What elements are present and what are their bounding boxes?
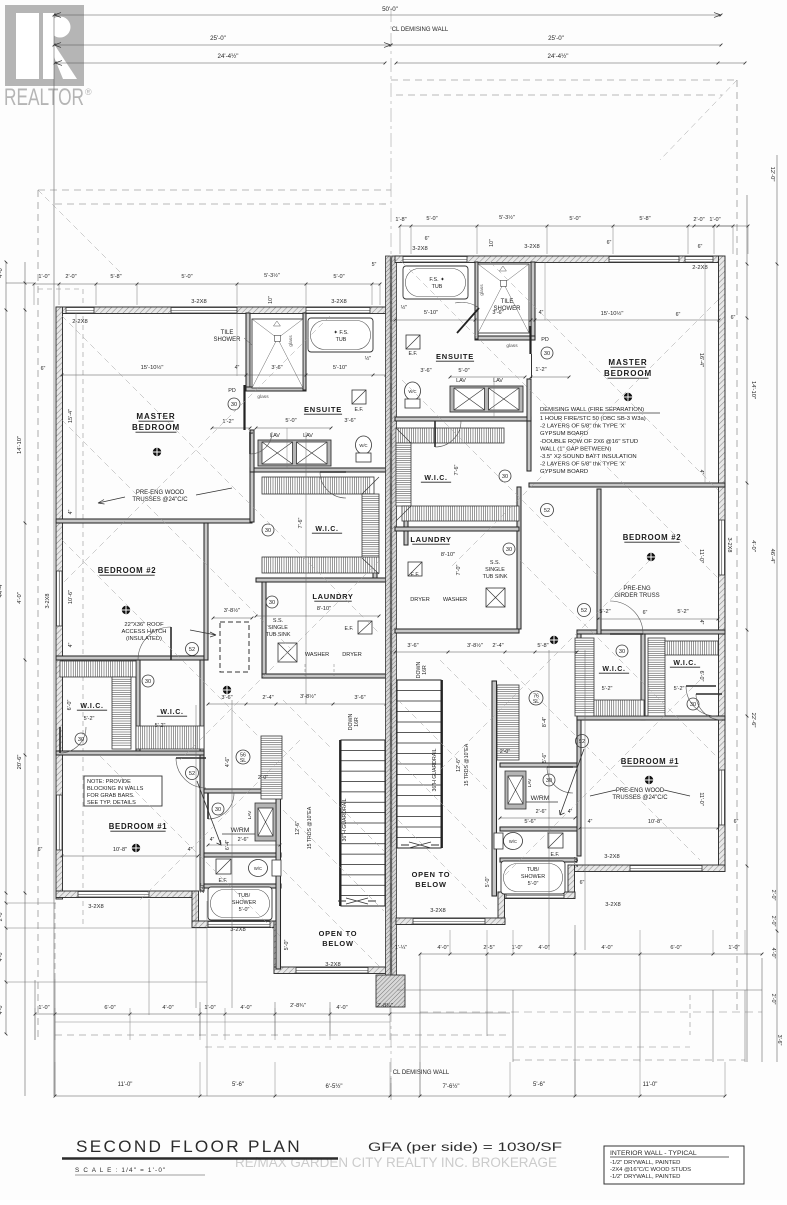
laundry sink B bbox=[486, 588, 505, 607]
svg-text:TILE: TILE bbox=[221, 330, 234, 336]
svg-text:LAV: LAV bbox=[303, 433, 313, 439]
svg-text:OPEN TO: OPEN TO bbox=[319, 929, 358, 938]
door bed1 B bbox=[686, 686, 716, 716]
dim 25'-0" left bbox=[54, 44, 391, 46]
tag 30 wic B bbox=[499, 470, 511, 482]
watermark REALTOR logo bbox=[5, 5, 84, 86]
svg-text:BELOW: BELOW bbox=[415, 880, 447, 889]
svg-text:3'-6": 3'-6" bbox=[420, 368, 431, 374]
linen closet A bbox=[261, 736, 282, 799]
svg-text:3'-8½": 3'-8½" bbox=[467, 642, 483, 649]
staircase B bbox=[397, 680, 441, 848]
wall master|shower A bbox=[246, 313, 250, 390]
svg-text:6": 6" bbox=[734, 819, 739, 825]
bed1 dim B bbox=[580, 827, 718, 829]
light hall A bbox=[223, 686, 231, 694]
wall bed2|hall A bbox=[204, 523, 208, 660]
svg-text:1'-2": 1'-2" bbox=[535, 367, 546, 373]
door wrm B bbox=[547, 767, 573, 793]
window A top 1 bbox=[66, 308, 94, 314]
svg-text:3'-8½": 3'-8½" bbox=[300, 693, 316, 700]
dim string A bottom bbox=[35, 1013, 390, 1015]
svg-text:10": 10" bbox=[489, 239, 495, 247]
svg-text:1'-8": 1'-8" bbox=[395, 217, 406, 223]
svg-text:PD: PD bbox=[541, 337, 549, 343]
svg-text:6'-0": 6'-0" bbox=[104, 1005, 115, 1011]
exhaust fan A laundry bbox=[358, 621, 372, 634]
jog wall A2 bbox=[274, 921, 281, 973]
svg-text:4": 4" bbox=[698, 470, 704, 475]
exterior wall stair bay B bbox=[396, 918, 505, 925]
left outer dim vertical bbox=[53, 15, 55, 1096]
hall dim string A bbox=[208, 703, 386, 705]
porch dashed box right bbox=[513, 1059, 745, 1061]
wall ensuite|wic B bbox=[395, 417, 531, 421]
svg-text:4'-6": 4'-6" bbox=[225, 757, 231, 767]
exhaust fan A bbox=[352, 390, 366, 404]
tag 30 wic A bbox=[262, 524, 274, 536]
svg-text:1'-0": 1'-0" bbox=[204, 1005, 215, 1011]
svg-text:CL DEMISING WALL: CL DEMISING WALL bbox=[392, 27, 449, 33]
bottom dim string bbox=[55, 1095, 725, 1097]
svg-text:3'-6": 3'-6" bbox=[407, 643, 418, 649]
tag 30 wrm B bbox=[543, 774, 555, 786]
window B stair bay bbox=[413, 919, 485, 925]
svg-text:30: 30 bbox=[231, 402, 237, 408]
svg-text:WASHER: WASHER bbox=[305, 652, 329, 658]
toilet A ensuite bbox=[356, 436, 372, 454]
door ensuite A bbox=[250, 432, 272, 454]
door wic A bbox=[320, 472, 346, 498]
laundry sink A bbox=[278, 643, 297, 662]
svg-text:BELOW: BELOW bbox=[322, 939, 354, 948]
tag 30 wrm A bbox=[212, 803, 224, 815]
window B top 1 bbox=[403, 257, 467, 263]
svg-text:1'-0": 1'-0" bbox=[728, 945, 739, 951]
svg-text:5'-0": 5'-0" bbox=[426, 216, 437, 222]
svg-text:2'-0": 2'-0" bbox=[770, 916, 776, 927]
svg-text:W/C: W/C bbox=[408, 389, 416, 394]
svg-text:2-2X8: 2-2X8 bbox=[72, 319, 87, 325]
svg-text:6'-0": 6'-0" bbox=[698, 671, 704, 682]
svg-text:15 TRDS @10"EA: 15 TRDS @10"EA bbox=[307, 806, 313, 849]
svg-text:16R: 16R bbox=[422, 665, 428, 675]
svg-text:-2 LAYERS OF 5/8" thk TYPE 'X': -2 LAYERS OF 5/8" thk TYPE 'X' bbox=[540, 462, 626, 468]
demising wall stub bottom bbox=[376, 975, 405, 1007]
toilet B wrm bbox=[494, 833, 503, 849]
freestanding tub A bbox=[308, 318, 373, 352]
svg-text:1'-¼": 1'-¼" bbox=[395, 945, 407, 951]
dim 24'-4 1/2 right bbox=[396, 62, 718, 64]
svg-text:5'-10": 5'-10" bbox=[333, 365, 347, 371]
svg-text:4'-0": 4'-0" bbox=[336, 1005, 347, 1011]
stair bay diagonals B bbox=[398, 700, 490, 792]
door bed1 A bbox=[176, 758, 206, 788]
svg-text:LAUNDRY: LAUNDRY bbox=[410, 535, 451, 544]
in-room dim verticals B bbox=[704, 262, 706, 483]
svg-text:2'-5": 2'-5" bbox=[483, 945, 494, 951]
svg-text:3-2X8: 3-2X8 bbox=[88, 904, 103, 910]
tag 52 B bbox=[578, 604, 591, 617]
svg-text:5": 5" bbox=[372, 262, 377, 268]
svg-text:WASHER: WASHER bbox=[443, 597, 467, 603]
tag 52 A bbox=[186, 643, 199, 656]
window B bed1 bbox=[630, 866, 702, 872]
left dim line x25 bbox=[24, 262, 26, 1096]
wall stair bay left A bbox=[276, 740, 281, 969]
porch verticals left extra bbox=[148, 899, 150, 1015]
svg-text:5'-8": 5'-8" bbox=[537, 643, 548, 649]
tub/shower B bbox=[501, 861, 565, 894]
svg-text:-3.5" X2 SOUND BATT INSULATION: -3.5" X2 SOUND BATT INSULATION bbox=[540, 454, 637, 460]
svg-text:LAUNDRY: LAUNDRY bbox=[312, 592, 353, 601]
jog wall B2 bbox=[498, 892, 505, 922]
exterior wall tub bay A bbox=[192, 921, 280, 928]
svg-text:3'-6": 3'-6" bbox=[354, 695, 365, 701]
unit A top wall dim string bbox=[34, 283, 380, 285]
svg-text:30: 30 bbox=[619, 649, 625, 655]
wall wic2|hall B bbox=[577, 634, 581, 856]
svg-text:ENSUITE: ENSUITE bbox=[436, 352, 474, 361]
svg-text:11'-0": 11'-0" bbox=[118, 1082, 133, 1088]
wall shower|tub B bbox=[475, 262, 478, 339]
right dim line x777 bbox=[776, 155, 778, 1062]
wic corner diagonals B bbox=[396, 428, 411, 443]
svg-text:6'-0": 6'-0" bbox=[670, 945, 681, 951]
svg-text:2'-4": 2'-4" bbox=[492, 643, 503, 649]
door wic2 B bbox=[696, 694, 722, 720]
svg-text:30: 30 bbox=[265, 528, 271, 534]
svg-text:BEDROOM #2: BEDROOM #2 bbox=[98, 566, 157, 575]
wrm dim B bbox=[500, 817, 575, 819]
svg-text:TUB: TUB bbox=[432, 284, 443, 290]
svg-text:7'-6½": 7'-6½" bbox=[443, 1083, 460, 1090]
svg-text:30: 30 bbox=[502, 474, 508, 480]
svg-text:DRYER: DRYER bbox=[342, 652, 361, 658]
svg-text:11'-0": 11'-0" bbox=[643, 1082, 658, 1088]
svg-text:7'-6": 7'-6" bbox=[298, 518, 304, 529]
wall below shower A bbox=[246, 387, 306, 391]
porch verticals bbox=[54, 979, 56, 1096]
svg-text:2-2X8: 2-2X8 bbox=[692, 265, 707, 271]
wrm dim A bbox=[208, 844, 280, 846]
wall bed2 bottom A bbox=[56, 656, 204, 660]
tile shower A bbox=[252, 319, 303, 388]
stair cross mark B bbox=[401, 842, 439, 848]
svg-text:E.F.: E.F. bbox=[411, 572, 420, 578]
svg-text:TRUSSES @24"C/C: TRUSSES @24"C/C bbox=[132, 497, 188, 503]
svg-text:8'-10": 8'-10" bbox=[441, 552, 455, 558]
svg-text:4'-0": 4'-0" bbox=[17, 592, 23, 604]
svg-text:3-2X8: 3-2X8 bbox=[191, 299, 206, 305]
window A bed1 bottom bbox=[78, 892, 149, 898]
first floor dashed outline A bbox=[82, 289, 84, 928]
svg-text:SL: SL bbox=[533, 699, 539, 705]
svg-text:W.I.C.: W.I.C. bbox=[160, 709, 183, 716]
svg-text:INTERIOR WALL - TYPICAL: INTERIOR WALL - TYPICAL bbox=[610, 1150, 697, 1157]
svg-text:½": ½" bbox=[401, 304, 407, 311]
exhaust fan B laundry bbox=[408, 562, 422, 576]
tag PD30 A bbox=[228, 398, 240, 410]
svg-text:1'-2": 1'-2" bbox=[222, 419, 233, 425]
wall wrm|wc A bbox=[204, 853, 281, 857]
window B tub bay bbox=[506, 893, 564, 899]
dim 50'-0" overall bbox=[54, 14, 721, 16]
svg-text:3-2X8: 3-2X8 bbox=[45, 594, 51, 609]
wall shower|tub A bbox=[303, 313, 306, 390]
svg-text:5'-6": 5'-6" bbox=[524, 819, 535, 825]
svg-text:TUB/: TUB/ bbox=[527, 867, 540, 873]
svg-text:22'-6": 22'-6" bbox=[750, 713, 756, 728]
svg-text:BEDROOM #1: BEDROOM #1 bbox=[109, 822, 168, 831]
svg-text:50'-0": 50'-0" bbox=[382, 6, 398, 13]
exhaust fan B wrm bbox=[548, 833, 563, 848]
svg-text:5'-6": 5'-6" bbox=[542, 753, 548, 763]
svg-text:PRE-ENG WOOD: PRE-ENG WOOD bbox=[136, 490, 185, 496]
svg-text:12'-0": 12'-0" bbox=[769, 167, 775, 182]
svg-text:2'-0": 2'-0" bbox=[0, 911, 4, 922]
tag 30 wic1 B bbox=[616, 645, 628, 657]
svg-text:10": 10" bbox=[268, 296, 274, 304]
svg-text:4'-0": 4'-0" bbox=[601, 945, 612, 951]
stair rail A bbox=[339, 740, 341, 906]
stair rail B bbox=[441, 680, 443, 848]
door bed2 B bbox=[610, 601, 643, 634]
truss lines B bbox=[450, 300, 718, 568]
svg-text:3'-6": 3'-6" bbox=[776, 1035, 782, 1046]
svg-text:5'-2": 5'-2" bbox=[677, 609, 688, 615]
svg-text:2'-4": 2'-4" bbox=[262, 695, 273, 701]
extension lines bottom B bbox=[449, 930, 451, 954]
svg-text:4'-0": 4'-0" bbox=[0, 266, 4, 278]
svg-text:SHOWER: SHOWER bbox=[232, 900, 256, 906]
svg-text:1'-0": 1'-0" bbox=[38, 1005, 49, 1011]
svg-text:-2X4 @16"C/C WOOD STUDS: -2X4 @16"C/C WOOD STUDS bbox=[610, 1167, 691, 1173]
svg-text:46'-4": 46'-4" bbox=[769, 549, 775, 564]
svg-text:14'-10": 14'-10" bbox=[17, 436, 23, 454]
svg-text:5'-10": 5'-10" bbox=[424, 310, 438, 316]
window A tub bay bbox=[208, 922, 270, 928]
roof hip dashed diagonals bbox=[38, 190, 120, 272]
svg-text:TUB/: TUB/ bbox=[238, 893, 251, 899]
wall laundry right B bbox=[517, 487, 521, 629]
svg-text:W.I.C.: W.I.C. bbox=[602, 666, 625, 673]
svg-text:PRE-ENG: PRE-ENG bbox=[623, 586, 651, 592]
svg-text:10'-8": 10'-8" bbox=[113, 847, 127, 853]
svg-text:MASTER: MASTER bbox=[136, 412, 175, 421]
ensuite door leaf B bbox=[457, 308, 479, 333]
closet shelf A master wic top bbox=[262, 477, 374, 494]
arrow from tag 52 B bbox=[560, 749, 585, 815]
wall wic1|wic2 A bbox=[136, 660, 140, 755]
laundry dim vertical A bbox=[305, 432, 307, 704]
svg-text:5'-0": 5'-0" bbox=[569, 216, 580, 222]
porch dashed left bbox=[55, 1034, 510, 1036]
wall wc|tub A bbox=[204, 884, 281, 888]
shower glass door B bbox=[529, 326, 531, 354]
wall master|shower B bbox=[531, 262, 535, 339]
svg-text:SL: SL bbox=[240, 758, 246, 764]
light bed2 B bbox=[647, 553, 655, 561]
svg-text:3-2X8: 3-2X8 bbox=[605, 902, 620, 908]
roof overhang dashed left bbox=[37, 190, 39, 1040]
wall wic left B bbox=[527, 421, 531, 471]
svg-text:RE/MAX GARDEN CITY REALTY INC.: RE/MAX GARDEN CITY REALTY INC. BROKERAGE bbox=[235, 1155, 557, 1170]
svg-text:12'-6": 12'-6" bbox=[456, 758, 462, 772]
svg-text:5'-3½": 5'-3½" bbox=[264, 272, 280, 279]
svg-text:4'-0": 4'-0" bbox=[0, 1004, 4, 1015]
svg-text:12'-6": 12'-6" bbox=[295, 821, 301, 835]
wall wic1|wic2 B bbox=[641, 634, 645, 720]
tag 52b B bbox=[541, 504, 554, 517]
closet shelf B master wic top bbox=[396, 428, 504, 443]
svg-text:E.F.: E.F. bbox=[355, 407, 364, 413]
svg-text:4": 4" bbox=[68, 509, 74, 514]
svg-text:BEDROOM: BEDROOM bbox=[132, 423, 180, 432]
window B top 2 bbox=[609, 257, 679, 263]
porch line right 2 bbox=[420, 1011, 762, 1013]
interior wall legend box bbox=[604, 1146, 744, 1184]
svg-text:6'-0": 6'-0" bbox=[67, 700, 73, 711]
svg-text:5'-0": 5'-0" bbox=[333, 274, 344, 280]
window B top 3 bbox=[685, 257, 713, 263]
svg-text:DEMISING WALL (FIRE SEPARATION: DEMISING WALL (FIRE SEPARATION) bbox=[540, 407, 644, 413]
dim 25'-0" right bbox=[391, 44, 721, 46]
svg-text:4": 4" bbox=[698, 620, 704, 625]
svg-text:ENSUITE: ENSUITE bbox=[304, 405, 342, 414]
truss lines A bbox=[62, 316, 330, 584]
unit B top wall dim string bbox=[400, 225, 748, 227]
svg-text:GYPSUM BOARD: GYPSUM BOARD bbox=[540, 431, 588, 437]
demising wall bbox=[386, 256, 391, 979]
svg-text:5'-0": 5'-0" bbox=[285, 418, 296, 424]
light bed2 A bbox=[122, 606, 130, 614]
exterior wall tub bay B bbox=[498, 892, 575, 899]
svg-text:2'-0": 2'-0" bbox=[770, 890, 776, 901]
svg-text:6": 6" bbox=[580, 880, 585, 886]
right small top dims bbox=[694, 225, 714, 227]
svg-text:4": 4" bbox=[68, 642, 74, 647]
tag PD30 B bbox=[541, 347, 553, 359]
svg-text:52: 52 bbox=[544, 508, 550, 514]
extension lines A top bbox=[33, 284, 35, 305]
tag 30 wic1 A bbox=[142, 675, 154, 687]
lav basin B wrm bbox=[508, 776, 523, 804]
svg-text:SECOND FLOOR PLAN: SECOND FLOOR PLAN bbox=[76, 1138, 302, 1156]
svg-text:5'-0": 5'-0" bbox=[284, 940, 290, 951]
svg-text:TILE: TILE bbox=[501, 299, 514, 305]
svg-text:E.F.: E.F. bbox=[409, 351, 418, 357]
door bed2 A bbox=[138, 627, 171, 660]
svg-text:1'-0": 1'-0" bbox=[709, 217, 720, 223]
window B right bed2 bbox=[719, 520, 725, 575]
wall master|bed2 B bbox=[529, 483, 725, 487]
wic corner diagonals A bbox=[362, 477, 379, 494]
note box grab bars A bbox=[84, 776, 162, 806]
extension lines B top bbox=[399, 226, 401, 254]
svg-text:LAV: LAV bbox=[493, 378, 503, 384]
tag 52 hall A bbox=[186, 767, 199, 780]
roof overhang dashed right bbox=[391, 79, 737, 81]
svg-text:4'-0": 4'-0" bbox=[240, 1005, 251, 1011]
wall ensuite|wic A bbox=[250, 468, 386, 472]
tile shower B bbox=[478, 264, 529, 333]
svg-text:-1/2" DRYWALL, PAINTED: -1/2" DRYWALL, PAINTED bbox=[610, 1160, 680, 1166]
svg-text:3-2X8: 3-2X8 bbox=[325, 962, 340, 968]
svg-text:S C A L E : 1/4" = 1'-0": S C A L E : 1/4" = 1'-0" bbox=[75, 1167, 166, 1174]
lav counter A basin 2 bbox=[297, 442, 328, 464]
svg-text:22"X36" ROOF: 22"X36" ROOF bbox=[124, 622, 164, 628]
lav basin A wrm bbox=[258, 808, 273, 836]
svg-text:25'-0": 25'-0" bbox=[548, 35, 564, 42]
svg-text:W/C: W/C bbox=[509, 839, 517, 844]
svg-text:52: 52 bbox=[581, 608, 587, 614]
light bed1 B bbox=[645, 776, 653, 784]
hall dim vertical A bbox=[231, 700, 233, 1008]
svg-text:W/RM: W/RM bbox=[531, 795, 550, 802]
wall laundry bottom B bbox=[395, 629, 519, 633]
svg-text:5'-0": 5'-0" bbox=[485, 877, 491, 888]
svg-text:TRUSSES @24"C/C: TRUSSES @24"C/C bbox=[612, 795, 668, 801]
lav counter A basin 1 bbox=[262, 442, 293, 464]
svg-text:15'-10½": 15'-10½" bbox=[601, 310, 624, 317]
svg-text:5'-0": 5'-0" bbox=[181, 274, 192, 280]
wall wic|laundry A bbox=[373, 522, 377, 578]
demising centerline bbox=[390, 8, 392, 1100]
svg-text:7'-6": 7'-6" bbox=[454, 465, 460, 476]
svg-text:SINGLE: SINGLE bbox=[268, 625, 288, 631]
wall wic2|hall A bbox=[200, 660, 204, 891]
svg-text:GYPSUM BOARD: GYPSUM BOARD bbox=[540, 469, 588, 475]
closet shelf B wic west side bbox=[575, 638, 594, 716]
exterior wall top A bbox=[56, 307, 386, 314]
svg-text:6": 6" bbox=[41, 366, 46, 372]
hall dim vertical B bbox=[548, 650, 550, 950]
svg-text:BEDROOM #2: BEDROOM #2 bbox=[623, 533, 682, 542]
extension lines bottom A bbox=[34, 1008, 36, 1040]
svg-text:36"H GUARDRAIL: 36"H GUARDRAIL bbox=[432, 748, 438, 791]
hall dim string B bbox=[395, 651, 577, 653]
freestanding tub B bbox=[403, 266, 468, 299]
svg-text:SINGLE: SINGLE bbox=[485, 567, 505, 573]
svg-text:W.I.C.: W.I.C. bbox=[424, 475, 447, 482]
wall master|ensuite hall B bbox=[527, 379, 531, 421]
svg-text:3-2X8: 3-2X8 bbox=[331, 299, 346, 305]
demising wall second leaf bbox=[392, 256, 397, 979]
svg-text:3-2X8: 3-2X8 bbox=[412, 246, 427, 252]
shower glass door A bbox=[243, 385, 245, 430]
svg-text:W/C: W/C bbox=[254, 866, 262, 871]
ensuite dim string A bbox=[62, 374, 386, 376]
wall laundry top B bbox=[395, 527, 519, 531]
exterior wall bottom bed1 A bbox=[56, 891, 198, 898]
lav counter B basin 1 bbox=[454, 388, 485, 410]
svg-text:7'-0": 7'-0" bbox=[456, 565, 462, 576]
svg-text:4": 4" bbox=[588, 819, 593, 825]
svg-text:3-2X8: 3-2X8 bbox=[604, 854, 619, 860]
svg-text:10'-6": 10'-6" bbox=[68, 590, 74, 604]
svg-text:2'-0": 2'-0" bbox=[574, 857, 580, 867]
svg-text:24'-4½": 24'-4½" bbox=[218, 53, 239, 60]
svg-text:4": 4" bbox=[210, 837, 215, 843]
svg-text:52: 52 bbox=[189, 647, 195, 653]
window B right bed1 bbox=[719, 770, 725, 825]
svg-text:3'-6": 3'-6" bbox=[492, 310, 503, 316]
wall wic|bed1 A bbox=[56, 751, 204, 755]
wall wrm|wc B bbox=[500, 827, 577, 831]
svg-text:3-2X8: 3-2X8 bbox=[230, 927, 245, 933]
exterior wall right B bbox=[719, 256, 726, 871]
